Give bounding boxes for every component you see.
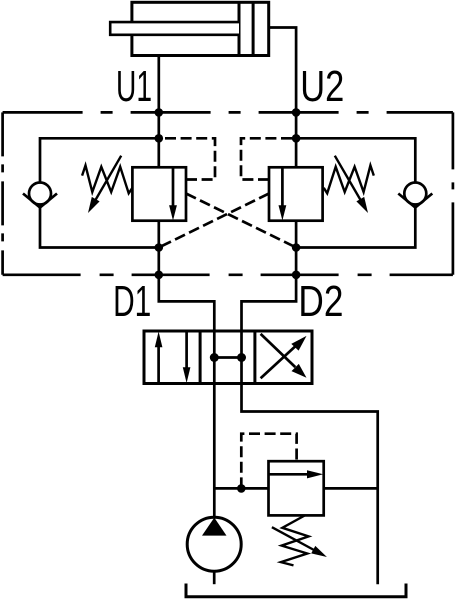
manifold dashed enclosure top edge: [3, 111, 453, 114]
RV internal arrow: [269, 473, 309, 476]
check valve CV2 seat: [398, 194, 432, 208]
node D2 (enclosure crossing): [292, 271, 301, 280]
U2 line lower segment: [295, 221, 298, 275]
CB1 spring: [82, 165, 132, 193]
cylinder piston line 2: [252, 2, 255, 55]
manifold dashed enclosure left edge: [1, 112, 4, 274]
DV right section cross arrow 2: [261, 334, 296, 367]
svg-text:D2: D2: [298, 277, 343, 326]
CB2 internal arrow: [281, 167, 284, 207]
left bypass loop lower wire: [40, 208, 159, 248]
node relief branch: [237, 484, 246, 493]
pump P1 circle: [187, 517, 241, 571]
CB1 cross pilot dashed wire: [186, 194, 296, 248]
svg-text:U1: U1: [116, 62, 152, 111]
DV centre connector: [214, 356, 241, 359]
CB2 spring: [324, 165, 374, 193]
DV left section up arrow: [157, 347, 160, 384]
check valve CV1 seat: [23, 194, 57, 208]
svg-text:D1: D1: [113, 277, 151, 326]
CB1 spring adjust arrow: [94, 156, 121, 203]
counterbalance valve CB1 body: [132, 167, 186, 220]
wire D2 to directional valve: [242, 275, 297, 331]
CB2 pilot dashed wire: [241, 138, 296, 179]
cylinder body: [132, 2, 269, 55]
wire cylinder cap to U1 line: [157, 56, 160, 168]
cylinder piston line 1: [238, 2, 241, 55]
node left loop top: [155, 134, 164, 143]
cylinder rod: [110, 22, 239, 35]
CB2 cross pilot dashed wire: [159, 194, 269, 248]
pump suction wire: [213, 571, 216, 584]
wire P line valve to pump: [213, 384, 216, 518]
DV divider left: [199, 331, 202, 384]
node right loop top: [292, 134, 301, 143]
node left loop bottom: [155, 243, 164, 252]
relief valve RV body: [269, 461, 324, 515]
manifold dashed enclosure right edge: [452, 112, 455, 274]
DV left section down arrow: [185, 331, 188, 368]
wire cylinder rod side to U2: [269, 28, 296, 168]
DV right section cross arrow 1: [261, 347, 296, 379]
relief pilot dashed wire: [241, 434, 296, 489]
RV spring: [281, 516, 309, 566]
check valve CV1 circle: [29, 183, 51, 205]
wire T line valve to tank: [242, 384, 378, 585]
RV spring adjust arrow: [272, 527, 314, 550]
wire P branch to relief valve: [214, 487, 268, 490]
node U1 top (enclosure crossing): [155, 108, 164, 117]
CB2 spring adjust arrow: [335, 156, 362, 203]
left bypass loop wire: [40, 138, 159, 182]
right bypass loop lower wire: [296, 208, 415, 248]
right bypass loop wire: [296, 138, 415, 182]
node U2 top (enclosure crossing): [292, 108, 301, 117]
check valve CV2 circle: [404, 183, 426, 205]
node D1 (enclosure crossing): [155, 271, 164, 280]
RV outlet wire: [324, 487, 378, 490]
DV divider right: [253, 331, 256, 384]
pump P1 triangle: [202, 518, 227, 536]
node DV centre B: [237, 353, 246, 362]
directional valve DV body: [144, 331, 312, 384]
node right loop bottom: [292, 243, 301, 252]
DV centre section port line A: [213, 331, 216, 384]
DV centre section port line B: [240, 331, 243, 384]
CB1 pilot dashed wire: [159, 138, 215, 179]
tank symbol: [186, 584, 406, 597]
node DV centre A: [210, 353, 219, 362]
svg-text:U2: U2: [300, 62, 344, 111]
manifold dashed enclosure bottom edge: [3, 273, 453, 276]
U1 line lower segment: [157, 221, 160, 275]
CB1 internal arrow: [172, 167, 175, 207]
counterbalance valve CB2 body: [269, 167, 323, 220]
wire D1 to directional valve: [159, 275, 215, 331]
